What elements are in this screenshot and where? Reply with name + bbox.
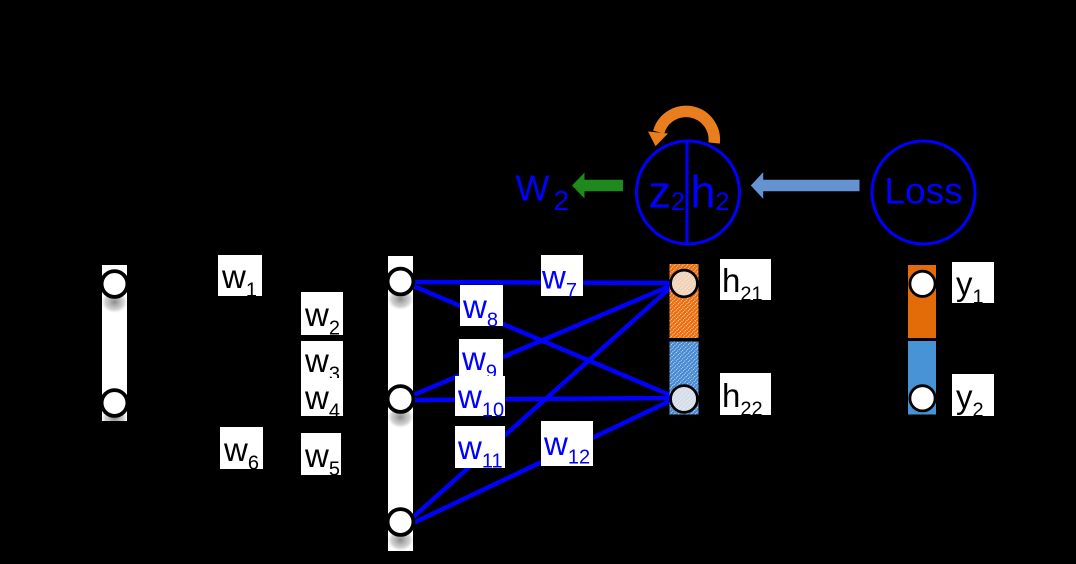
label h22 — [720, 373, 771, 421]
label h21 — [720, 259, 771, 306]
label w12 — [541, 421, 593, 469]
label w4 — [301, 378, 343, 423]
hidden node h12 — [388, 386, 414, 412]
input layer bar — [102, 265, 127, 421]
label w1 — [218, 255, 262, 302]
output node y1 — [910, 271, 935, 296]
output bar: orange half — [908, 265, 936, 338]
node h22 — [671, 386, 698, 413]
recurrent orange arrow — [659, 111, 715, 143]
svg-text:Loss: Loss — [884, 171, 962, 212]
wire w10: h12 to h22 — [411, 398, 670, 400]
label w2 — [301, 292, 343, 340]
hidden node h13 — [388, 509, 414, 535]
wire w8: h11 to h22 — [411, 285, 670, 395]
input node x1 — [102, 271, 128, 297]
label w11 — [455, 426, 505, 473]
label w8 — [460, 285, 503, 332]
loss feedback arrow — [751, 172, 860, 199]
wire w9: h12 to h21 — [411, 286, 670, 396]
node h21 — [671, 270, 698, 297]
label w6 — [220, 427, 263, 475]
label w10 — [455, 376, 505, 422]
label y1 — [952, 262, 994, 309]
wire w12: h13 to h22 — [411, 401, 670, 524]
output node y2 — [910, 386, 935, 411]
label y2 — [952, 374, 994, 422]
label w9 — [459, 339, 503, 384]
wire w7: h11 to h21 — [411, 282, 670, 283]
wire w11: h13 to h21 — [411, 288, 670, 519]
neuron circle z2|h2 — [637, 141, 740, 244]
label w3 — [301, 341, 343, 386]
hidden layer 2 bar: orange hatched half — [670, 264, 699, 338]
input node x2 — [102, 390, 128, 416]
hidden layer 1 bar — [388, 256, 413, 551]
label w7 — [541, 255, 583, 302]
loss circle — [872, 141, 975, 244]
divider line in z2|h2 — [686, 142, 689, 244]
orange arrowhead — [648, 132, 668, 147]
output bar: blue half — [908, 341, 936, 415]
green update arrow — [572, 173, 623, 199]
hidden node h11 — [388, 269, 414, 295]
label w5 — [301, 433, 341, 481]
hidden layer 2 bar: blue hatched half — [670, 342, 699, 415]
